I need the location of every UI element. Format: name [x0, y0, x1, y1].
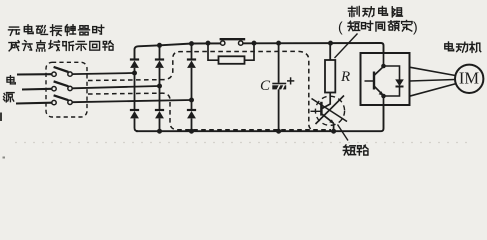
inverter output wire to - bus [383, 96, 385, 105]
rectifier leg1 bottom diode D4 [130, 110, 139, 118]
rectifier leg2 wire to - bus [159, 118, 161, 131]
wire phase L3 from source [16, 102, 52, 105]
inverter module box [361, 53, 410, 105]
braking transistor wire collector [322, 93, 330, 109]
contactor dashed outline box [46, 62, 87, 117]
label: note 无电磁接触器时 [8, 25, 103, 36]
rectifier leg3 bottom diode D6 [187, 110, 196, 118]
rectifier leg2 wire mid [159, 68, 161, 110]
wire inverter to motor W [410, 84, 457, 97]
label: 电源 (power source) [4, 76, 16, 102]
svg-text:R: R [340, 69, 350, 85]
wire L3 to rectifier leg 3 [72, 100, 191, 102]
freewheel diode [395, 79, 404, 86]
braking transistor emitter wire to - bus [333, 123, 335, 131]
contactor contact 3 [52, 95, 72, 105]
dashed alternate wire upper (no-contactor loop, to + side) [88, 51, 314, 129]
scan mark left edge [0, 113, 2, 122]
motor IM circle [455, 65, 483, 93]
IGBT Q1 [365, 67, 384, 96]
rectifier leg1 wire mid [134, 68, 136, 110]
label: 电动机 (motor) [445, 42, 481, 52]
svg-text:(: ( [338, 19, 343, 35]
rectifier leg2 bottom diode D5 [155, 110, 164, 118]
capacitor C branch wire top [278, 43, 280, 83]
rectifier leg3 wire to - bus [191, 118, 193, 131]
label: 制动电阻 (braking resistor) [348, 6, 402, 16]
rectifier leg1 top diode D1 [130, 60, 139, 68]
braking resistor R body [325, 60, 335, 93]
wire DC - bus (bottom) [136, 105, 384, 131]
wire DC + bus (top) [135, 43, 384, 59]
dashed alternate wire lower (no-contactor loop, return side) [88, 93, 331, 130]
bypass contact MC [220, 39, 246, 45]
leader line to 制动电阻 label [335, 34, 358, 59]
wire L1 to rectifier leg 1 [72, 73, 134, 74]
wire phase L1 from source [17, 73, 52, 75]
rectifier leg1 wire to - bus [135, 118, 139, 131]
rectifier leg3 wire mid [191, 68, 193, 110]
node emitter - bus [331, 129, 336, 134]
freewheel diode wire top [384, 66, 400, 80]
braking transistor emitter with arrow [322, 114, 333, 123]
node bypass right [252, 41, 257, 46]
+ bus gap cover for bypass contact [221, 41, 240, 45]
node C + bus [276, 41, 281, 46]
scan speck bottom left [3, 157, 6, 159]
node R + bus [328, 41, 333, 46]
wire inverter to motor V [410, 80, 456, 82]
svg-text:C: C [260, 78, 271, 94]
braking resistor wire top [329, 43, 331, 60]
wire inverter to motor U [410, 67, 457, 75]
node IGBT emitter [381, 94, 386, 99]
label: (短时间额定) short-time rating [338, 19, 418, 35]
freewheel diode wire bottom [384, 87, 400, 97]
contactor contact 2 [52, 81, 72, 91]
wire L2 to rectifier leg 2 [72, 86, 159, 88]
node L1-bridge [132, 71, 137, 76]
rectifier leg2 top diode D2 [155, 60, 164, 68]
node L2-bridge [157, 84, 162, 89]
rectifier leg3 top diode D3 [187, 60, 196, 68]
rectifier leg2 wire top [159, 45, 161, 59]
node leg3 + bus [189, 41, 194, 46]
label + polarity [287, 77, 294, 84]
braking transistor base lead [311, 110, 322, 112]
contactor contact 1 [52, 67, 72, 77]
wire phase L2 from source [22, 88, 52, 91]
node bypass left [206, 41, 211, 46]
fault cross X over transistor [312, 99, 348, 122]
capacitor C branch wire bottom [278, 89, 280, 131]
inrush resistor body [219, 56, 245, 64]
leader line to 短路 label [338, 125, 349, 141]
label: note 成为点线所示回路 [9, 41, 113, 52]
inrush resistor branch wire left [208, 43, 219, 60]
scan noise dotted line bottom [15, 142, 470, 144]
node IGBT collector [381, 64, 386, 69]
node leg2 + bus [157, 43, 162, 48]
node leg2 - bus [157, 129, 162, 134]
node L3-bridge [189, 98, 194, 103]
node leg3 - bus [189, 129, 194, 134]
svg-text:IM: IM [459, 69, 479, 88]
capacitor C (electrolytic) [272, 84, 286, 91]
label: 短路 (short circuit) [343, 145, 368, 155]
braking transistor envelope (circle) [315, 96, 344, 125]
inrush resistor branch wire right [245, 43, 255, 60]
svg-text:): ) [413, 19, 418, 35]
inverter input wire from + bus [383, 53, 385, 66]
node C - bus [276, 129, 281, 134]
rectifier leg3 wire top [191, 44, 193, 60]
braking transistor Q base bar [320, 102, 323, 116]
